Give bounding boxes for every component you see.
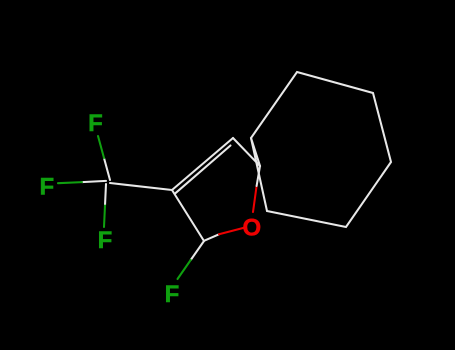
svg-text:O: O (242, 215, 261, 242)
svg-text:F: F (88, 110, 103, 137)
svg-text:F: F (39, 174, 54, 201)
svg-text:F: F (165, 281, 180, 308)
svg-text:F: F (98, 227, 113, 254)
